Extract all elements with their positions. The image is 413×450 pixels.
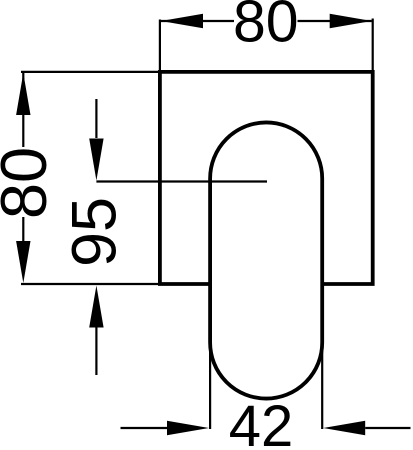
extension line top-left (for top 80 dim) xyxy=(159,20,161,72)
svg-text:80: 80 xyxy=(233,0,299,55)
dimension line 80 top, right shaft xyxy=(298,20,372,22)
plate outline (square 80x80, bottom edge broken at slot) xyxy=(160,72,373,284)
dimension line 42, left shaft xyxy=(121,427,169,429)
dimension line 80 left, lower shaft xyxy=(22,217,24,243)
svg-text:80: 80 xyxy=(0,147,60,219)
arrowhead 80 top left xyxy=(161,14,203,28)
arrowhead 80 left up xyxy=(16,73,30,115)
dimension line 80 top, left shaft xyxy=(161,20,234,22)
arrowhead 42 right (pointing left) xyxy=(323,421,365,435)
arrowhead 42 left (pointing right) xyxy=(167,421,209,435)
extension line left-lower (for left 80 dim) xyxy=(21,283,160,285)
dimension line 42, right shaft xyxy=(365,427,410,429)
extension line top-right (for top 80 dim) xyxy=(372,19,374,72)
extension line 42 right (slot side extended) xyxy=(321,343,323,430)
slot (obround 42 wide) xyxy=(210,122,322,398)
dimension line 80 left, upper shaft xyxy=(22,73,24,147)
dimension 95, lower shaft xyxy=(95,328,97,376)
arrowhead 95 down xyxy=(89,139,103,181)
arrowhead 80 top right xyxy=(330,14,372,28)
arrowhead 95 up xyxy=(89,286,103,328)
arrowhead 80 left down xyxy=(16,241,30,283)
extension line 42 left (slot side extended) xyxy=(209,343,211,430)
svg-text:95: 95 xyxy=(60,197,130,267)
svg-text:42: 42 xyxy=(229,394,294,450)
extension line left-upper (for left 80 dim) xyxy=(21,71,160,73)
pointer line to slot arc center xyxy=(96,180,267,182)
dimension 95, upper shaft xyxy=(95,99,97,138)
